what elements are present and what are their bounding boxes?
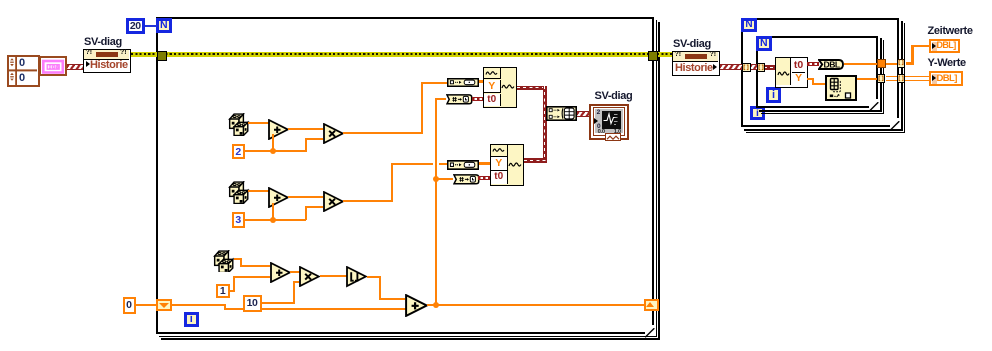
wire DBL to tunnel (orange scalar) xyxy=(844,63,877,65)
get waveform components node GWC xyxy=(775,57,808,88)
wire A2 to multiply M2 xyxy=(288,196,323,198)
wire A3 to multiply M3 xyxy=(290,271,300,273)
for-loop F1 dog-ear corner xyxy=(645,325,655,335)
label SV-diag (right property node) xyxy=(673,38,711,50)
wire property node to F2 tunnel (hatched history) xyxy=(720,64,743,70)
numeric constant 10 xyxy=(243,295,262,312)
for-loop F3 (inner right) main frame xyxy=(756,36,878,108)
tunnel [] on F2 left border xyxy=(742,63,751,72)
wire: chart history (yellow dashed) from property node across loop xyxy=(131,52,659,57)
numeric constant 0 (shift register init) xyxy=(123,297,136,314)
build array node BA2 (scalar to array) xyxy=(447,160,479,170)
wire constant2 to A1/M1 xyxy=(0,0,1,1)
iteration terminal i of F2 xyxy=(750,106,765,120)
tunnel [] on F2 right border (time values) xyxy=(897,59,906,68)
wire BA1 to Y input of build-waveform W1 (orange array) xyxy=(479,80,485,83)
to-timestamp node TS2 xyxy=(453,174,480,185)
wire TS2 to t0 input of W2 (timestamp) xyxy=(478,176,491,180)
wire tunnel to tunnel (orange) xyxy=(886,63,897,65)
for-loop F1 main frame xyxy=(156,17,654,334)
add node A4 xyxy=(405,294,428,317)
wire M3 to floor FL1 xyxy=(320,275,347,277)
for-loop F2 stacked page line 1 (bottom) xyxy=(744,129,903,131)
wire constant3 to A2/M2 xyxy=(0,0,1,1)
cluster constant (history init, two numerics) xyxy=(7,55,40,87)
wire IDX to tunnel (orange) xyxy=(857,78,877,80)
random number (dice) node RND1 xyxy=(228,113,250,136)
wire between tunnels (hatched history) xyxy=(750,64,758,70)
long wire from shift register (bottom rail) xyxy=(0,0,1,1)
wire 0 to shift register xyxy=(136,304,157,306)
label SV-diag (left property node) xyxy=(84,36,122,48)
build-waveform node W2 xyxy=(490,144,524,186)
label SV-diag (chart terminal) xyxy=(595,90,633,102)
for-loop F1 stacked page line 2 (bottom) xyxy=(161,338,660,340)
shift register left terminal (down arrow) xyxy=(156,299,172,311)
for-loop F3 stacked page line 1 (bottom) xyxy=(759,110,882,112)
for-loop F3 stacked page line 2 (bottom) xyxy=(761,113,885,115)
build array node BAW (two waveforms to array) xyxy=(546,106,577,121)
for-loop F3 stacked page line 1 (right) xyxy=(880,38,882,111)
wire A1 to multiply M1 xyxy=(288,128,323,130)
random number (dice) node RND2 xyxy=(228,181,250,204)
loop count terminal N of F1 xyxy=(156,18,172,33)
for-loop F2 stacked page line 2 (right) xyxy=(904,23,906,133)
property node SV-diag:Historie (write) xyxy=(83,49,131,73)
build-waveform node W1 xyxy=(483,67,517,109)
tunnel [] on F2 right border (Y values) xyxy=(897,74,906,83)
wire W1 output to build-array BAW (waveform dashed) xyxy=(0,0,1,1)
for-loop F2 stacked page line 1 (right) xyxy=(901,21,903,131)
multiply node M2 xyxy=(323,191,344,212)
tunnel (olive) on F1 left border xyxy=(157,51,167,61)
for-loop F1 stacked page line 1 (right) xyxy=(656,20,658,337)
wire RND2 to add A2 xyxy=(248,190,269,192)
wire: cluster constant to property node (hatched history wire) xyxy=(67,64,84,70)
tunnel [] on F3 left border xyxy=(757,63,766,72)
wire chart history yellow (loop to right property node) xyxy=(657,52,672,57)
wire 20 to N (blue I32) xyxy=(145,25,157,27)
wire constant10 to M3 xyxy=(0,0,1,1)
tunnel (olive) on F1 right border xyxy=(648,51,658,61)
svg-text:DBL: DBL xyxy=(824,59,840,69)
wire RND3 to add A3 xyxy=(0,0,1,1)
floor (round toward -inf) node FL1 xyxy=(346,266,368,288)
chart terminal SV-diag xyxy=(589,104,629,140)
multiply node M1 xyxy=(323,123,344,144)
wire RND1 to add A1 xyxy=(248,122,269,124)
add node A1 xyxy=(268,119,289,140)
for-loop F3 dog-ear corner xyxy=(869,99,879,109)
to-timestamp node TS1 xyxy=(446,94,473,105)
wire A4 to right shift register with junction xyxy=(0,0,1,1)
loop count terminal N of F2 xyxy=(741,18,757,33)
build array node BA1 (scalar to array) xyxy=(447,78,479,87)
for-loop F1 stacked page line 1 (bottom) xyxy=(159,336,657,338)
iteration terminal i of F1 xyxy=(184,312,200,327)
numeric constant 20 xyxy=(126,18,145,34)
wire BAW to chart terminal (hatched history) xyxy=(577,111,590,117)
for-loop F2 stacked page line 2 (bottom) xyxy=(746,132,905,134)
wire constant1 to A3 xyxy=(0,0,1,1)
random number (dice) node RND3 xyxy=(213,250,235,273)
for-loop F2 dog-ear corner xyxy=(890,118,900,128)
wire TS1 to t0 input of W1 (timestamp) xyxy=(472,97,484,101)
label Zeitwerte xyxy=(928,25,973,37)
to-double conversion node DBL xyxy=(818,59,844,70)
shift register right terminal (up arrow) xyxy=(644,299,660,311)
wire FL1 to add A4 xyxy=(0,0,1,1)
numeric constant 1 xyxy=(216,284,230,298)
wire GWC t0 to DBL conversion (timestamp) xyxy=(807,62,819,66)
wire GWC Y output to index-array node (orange) xyxy=(0,0,1,1)
tunnel (solid orange, indexing disabled) on F3 right border xyxy=(877,59,887,69)
property node SV-diag:Historie (read) xyxy=(672,51,720,76)
iteration terminal i of F3 xyxy=(766,87,781,103)
waveform constant (pink cluster icon) xyxy=(39,56,68,76)
numeric constant 2 xyxy=(232,144,245,159)
indicator Y-Werte (2D DBL array) xyxy=(929,71,963,86)
for-loop F3 stacked page line 2 (right) xyxy=(883,40,885,113)
wire BA2 to Y input of W2 (orange array) xyxy=(479,162,491,165)
loop count terminal N of F3 xyxy=(756,36,772,51)
index array node IDX xyxy=(825,75,857,101)
tunnel [] on F3 right border (Y values) xyxy=(877,74,886,83)
numeric constant 3 xyxy=(232,212,245,228)
add node A2 xyxy=(268,187,289,208)
wire tunnel to get-waveform-components (waveform dashed) xyxy=(764,65,776,70)
add node A3 xyxy=(270,262,291,283)
for-loop F2 (outer right) main frame xyxy=(741,18,899,127)
wire 2D array to Y-Werte indicator (double orange) xyxy=(886,76,929,81)
for-loop F1 stacked page line 2 (right) xyxy=(658,22,660,340)
wire W2 output to build-array BAW (waveform dashed) xyxy=(0,0,1,1)
wire to Zeitwerte indicator (orange 1D array) xyxy=(0,0,1,1)
wire vertical trunk A4 to timestamp converters xyxy=(0,0,1,1)
multiply node M3 xyxy=(299,266,320,287)
indicator Zeitwerte (1D DBL array) xyxy=(929,39,960,53)
wire M1 to build-array BA1 xyxy=(0,0,1,1)
label Y-Werte xyxy=(928,57,966,69)
wire M2 to build-array BA2 (gap at crossing) xyxy=(0,0,1,1)
